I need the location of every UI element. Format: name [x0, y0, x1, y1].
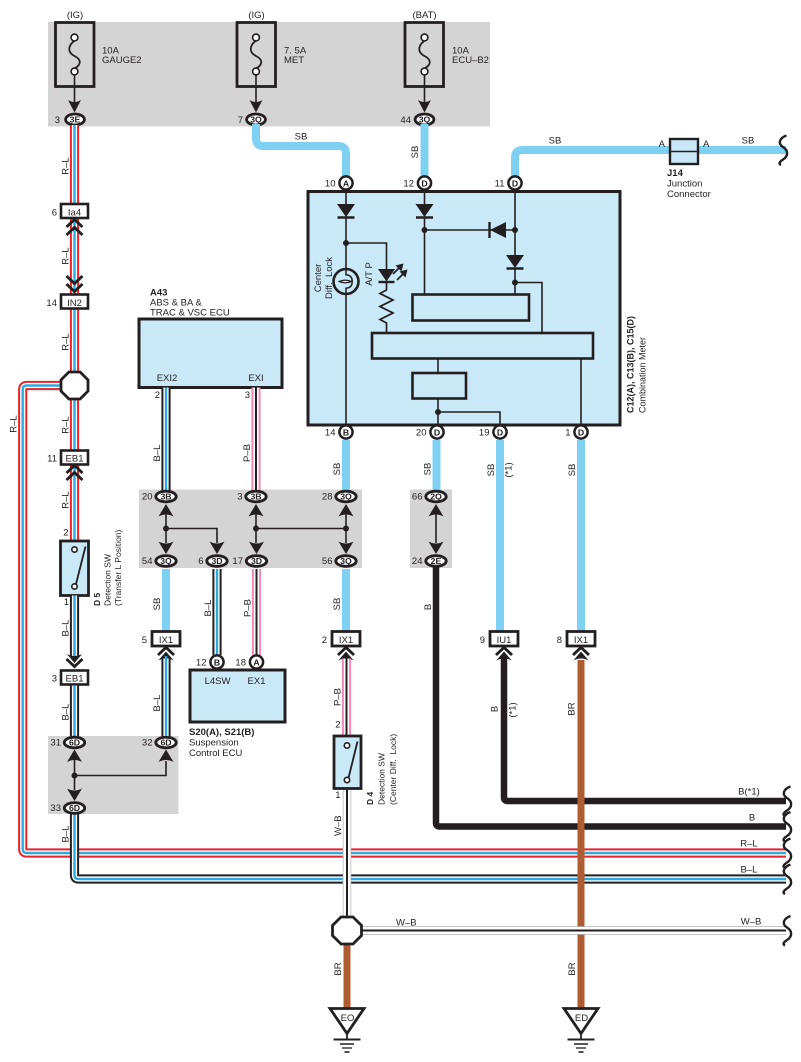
wire BR from 8-IX1 down to ground ED [578, 660, 585, 1008]
svg-text:EO: EO [341, 1013, 355, 1024]
meter pin 12 D [403, 176, 431, 189]
svg-text:ED: ED [575, 1013, 588, 1024]
ground EO [330, 1009, 364, 1053]
node junction below rect3 [435, 409, 441, 415]
svg-text:7: 7 [238, 115, 243, 126]
svg-text:B–L: B–L [152, 445, 163, 462]
connector 24 2E [412, 556, 446, 568]
svg-text:3Q: 3Q [419, 115, 431, 125]
junction block shading bottom left [48, 736, 179, 814]
chevron arrows below 2-IX1 [338, 648, 354, 661]
wire R-L IN2 to octagon junction [70, 309, 79, 375]
svg-text:TRAC & VSC ECU: TRAC & VSC ECU [150, 308, 230, 319]
arrow down into 17-3D [249, 542, 264, 555]
svg-text:(Center Diff. Lock): (Center Diff. Lock) [388, 734, 398, 805]
arrow down into 6-3D [210, 542, 225, 555]
svg-text:1: 1 [565, 427, 570, 438]
pin circle 12 B on L4SW [196, 655, 224, 668]
wire link 3-3B to 17-3D and 56-3Q [256, 515, 346, 544]
chevron arrows below Ia4 [67, 220, 83, 236]
svg-text:D: D [578, 427, 584, 437]
svg-text:6: 6 [52, 208, 57, 219]
connector 66 2Q [412, 491, 446, 503]
svg-text:3: 3 [52, 674, 57, 685]
arrow down into 33-6D [67, 789, 82, 802]
svg-text:B–L: B–L [741, 865, 758, 876]
svg-text:BR: BR [333, 962, 344, 975]
node junction 6D block [72, 773, 78, 779]
wire P-B 2-IX1 to D4 pin2 [342, 659, 351, 737]
arrow up into 20-3B [159, 504, 174, 517]
svg-text:B–L: B–L [203, 600, 214, 617]
svg-text:C12(A), C13(B), C15(D): C12(A), C13(B), C15(D) [626, 316, 636, 413]
arrow down into 54-3Q [159, 542, 174, 555]
connector 5 IX1 [142, 632, 180, 647]
wire diode D4 to rect1 [514, 268, 516, 295]
svg-text:B: B [343, 427, 349, 437]
svg-text:W–B: W–B [741, 917, 762, 928]
svg-text:IX1: IX1 [159, 635, 173, 646]
svg-text:(BAT): (BAT) [412, 10, 436, 21]
resistor inside meter [380, 282, 393, 333]
node junction on 12D line [422, 227, 428, 233]
curl break symbol B [784, 812, 792, 842]
wire SB from page edge through J14 to meter pin 11D [515, 150, 786, 178]
curl break symbol top right [780, 136, 788, 166]
svg-text:EXI: EXI [248, 373, 263, 384]
wire B-L EB1 pin3 to 31-6D [70, 686, 79, 737]
wire link 20-3B to 54-3Q and 6-3D [166, 515, 217, 544]
svg-text:D: D [434, 427, 440, 437]
arrow up into 31-6D [67, 750, 82, 763]
svg-text:8: 8 [557, 635, 562, 646]
svg-text:19: 19 [479, 427, 490, 438]
curl break symbol R-L [784, 839, 792, 869]
wire link 66-2Q to 24-2E [435, 515, 437, 544]
fuse MET 7.5A (IG) [237, 10, 307, 87]
wire B-L D5 pin1 to EB1 pin3 [70, 596, 79, 658]
fuse GAUGE2 10A (IG) [56, 10, 142, 87]
svg-text:11: 11 [47, 454, 57, 465]
svg-text:ECU–B2: ECU–B2 [452, 55, 489, 66]
wire P-B 17-3D to L4SW 18A [252, 569, 261, 655]
svg-text:MET: MET [284, 55, 304, 66]
wire B-L from A43 EXI2 to 20-3B [161, 388, 170, 491]
svg-text:SB: SB [295, 132, 308, 143]
svg-text:20: 20 [142, 492, 153, 503]
svg-text:B: B [490, 706, 501, 712]
svg-text:3B: 3B [250, 492, 261, 502]
svg-text:IX1: IX1 [339, 635, 353, 646]
svg-text:(IG): (IG) [67, 10, 83, 21]
svg-text:EX1: EX1 [248, 676, 266, 687]
chevron arrows below 5-IX1 [158, 648, 174, 663]
svg-text:(*1): (*1) [508, 702, 519, 717]
svg-text:1: 1 [64, 597, 69, 608]
block rect2 inside meter [372, 333, 593, 359]
connector EB1 pin 3 [52, 671, 88, 685]
svg-text:14: 14 [46, 298, 57, 309]
svg-text:(IG): (IG) [248, 10, 264, 21]
wire junction lines in 6D block [75, 760, 167, 790]
wire R-L EB1 to D5 pin2 [70, 465, 79, 542]
pin circle 18 A on L4SW [235, 655, 263, 668]
svg-text:2: 2 [63, 528, 68, 539]
svg-text:D 5: D 5 [92, 593, 102, 607]
svg-text:24: 24 [412, 556, 423, 567]
svg-text:3Q: 3Q [340, 492, 352, 502]
wire SB from meter 14B to 28-3Q [342, 440, 350, 490]
svg-text:S20(A), S21(B): S20(A), S21(B) [189, 727, 254, 738]
wire inside meter pin10A down [345, 192, 347, 205]
junction connector J14 [659, 139, 711, 200]
chevron arrows above IN2 [67, 276, 83, 292]
arrow up into 3-3B [249, 504, 264, 517]
wire SB from meter 19D to 9-IU1 [496, 440, 504, 632]
node junction on pin10A line [343, 240, 349, 246]
svg-text:56: 56 [322, 556, 333, 567]
meter pin 19 D [479, 425, 507, 438]
wire R-L 3E to Ia4 [70, 125, 79, 204]
svg-text:SB: SB [332, 598, 343, 611]
wire B-L long: from 33-6D down, right to page edge [75, 814, 787, 879]
svg-text:P–B: P–B [243, 599, 254, 617]
svg-text:B: B [749, 813, 755, 824]
wire SB 56-3Q to 2-IX1 [342, 569, 350, 632]
label Center Diff. Lock [313, 257, 335, 299]
svg-text:D: D [421, 178, 427, 188]
wire SB from meter 20D to 66-2Q [433, 440, 441, 490]
svg-text:L4SW: L4SW [205, 676, 231, 687]
connector 3Q pin 44 [400, 114, 433, 126]
svg-text:Junction: Junction [667, 179, 702, 190]
svg-text:R–L: R–L [61, 333, 72, 350]
svg-text:D 4: D 4 [365, 792, 375, 806]
svg-text:Control ECU: Control ECU [189, 748, 242, 759]
svg-text:3: 3 [245, 390, 250, 401]
svg-text:Ia4: Ia4 [68, 208, 81, 219]
connector 3Q pin 7 [238, 114, 266, 126]
curl break symbol W-B [784, 916, 792, 946]
svg-text:28: 28 [322, 492, 333, 503]
svg-text:2: 2 [322, 635, 327, 646]
svg-text:3E: 3E [70, 115, 81, 125]
ECU S20/S21 suspension control box L4SW [189, 670, 285, 759]
meter pin 1 D [565, 425, 587, 438]
meter pin 14 B [325, 425, 353, 438]
svg-text:BR: BR [567, 702, 578, 715]
node junction below 20-3B [163, 526, 169, 532]
wire diode D1 to lamp [345, 217, 347, 269]
svg-text:IN2: IN2 [67, 298, 82, 309]
svg-text:R–L: R–L [61, 416, 72, 433]
svg-text:3D: 3D [251, 556, 262, 566]
label D4 [365, 734, 398, 805]
svg-text:66: 66 [412, 492, 423, 503]
svg-text:Detection SW: Detection SW [103, 554, 113, 606]
arrow up into 32-6D [159, 750, 174, 763]
svg-text:B–L: B–L [61, 826, 72, 843]
wire branch 12D junction to 11D line [425, 229, 516, 231]
lamp Center Diff. Lock indicator [334, 269, 359, 294]
svg-text:R–L: R–L [740, 839, 757, 850]
svg-text:3: 3 [237, 492, 242, 503]
svg-text:R–L: R–L [9, 415, 20, 432]
octagon junction bottom [333, 917, 362, 944]
svg-text:W–B: W–B [333, 815, 344, 836]
svg-text:EB1: EB1 [66, 454, 84, 465]
svg-text:2: 2 [155, 390, 160, 401]
svg-text:A: A [253, 657, 260, 667]
svg-text:Detection SW: Detection SW [377, 753, 387, 805]
svg-text:12: 12 [403, 178, 414, 189]
svg-text:44: 44 [400, 115, 411, 126]
svg-text:3Q: 3Q [340, 556, 352, 566]
wire branch junction to pin 19D [438, 412, 500, 425]
block rect1 inside meter [413, 295, 530, 321]
connector 2 IX1 [322, 632, 360, 647]
connector 6 3D [198, 556, 227, 568]
svg-text:(*1): (*1) [504, 462, 515, 477]
wire R-L long: from octagon left, down left edge, right to page edge [23, 386, 786, 854]
wire SB 54-3Q to 5-IX1 [162, 569, 170, 632]
wire B-L 6-3D to L4SW 12B [212, 569, 221, 655]
svg-text:D: D [497, 427, 503, 437]
svg-text:EXI2: EXI2 [157, 373, 178, 384]
svg-text:W–B: W–B [396, 918, 417, 929]
svg-text:32: 32 [142, 738, 153, 749]
junction block shading top [48, 22, 490, 127]
wire SB from 3Q pin7 to meter pin 10A [256, 124, 346, 178]
connector 56 3Q [322, 556, 356, 568]
svg-text:D: D [512, 178, 518, 188]
svg-text:12: 12 [196, 657, 207, 668]
svg-text:6D: 6D [69, 738, 80, 748]
svg-text:Combination Meter: Combination Meter [638, 337, 648, 413]
svg-text:A: A [703, 139, 710, 150]
svg-text:33: 33 [50, 803, 61, 814]
svg-text:20: 20 [416, 427, 427, 438]
wire BR from octagon to ground EO [344, 943, 351, 1008]
wire inside meter pin11D down [514, 192, 516, 256]
svg-text:2Q: 2Q [430, 492, 442, 502]
svg-text:1: 1 [335, 790, 340, 801]
svg-text:P–B: P–B [333, 688, 344, 706]
svg-text:R–L: R–L [61, 247, 72, 264]
junction block shading middle right [410, 490, 452, 569]
connector 54 3Q [142, 556, 176, 568]
svg-text:SB: SB [410, 146, 421, 159]
svg-text:BR: BR [567, 962, 578, 975]
octagon junction left [61, 372, 88, 399]
chevron arrows above EB1 pin3 [67, 650, 83, 667]
svg-text:Suspension: Suspension [189, 738, 239, 749]
meter pin 10 A [325, 176, 353, 189]
connector 28 3Q [322, 491, 356, 503]
svg-text:5: 5 [142, 635, 147, 646]
wire rect2 to pin 1D [580, 359, 582, 426]
combination meter box C12/C13/C15 [308, 192, 620, 426]
svg-text:B–L: B–L [61, 620, 72, 637]
wire R-L octagon to EB1 pin11 [70, 397, 79, 451]
curl break symbol B(*1) [784, 787, 792, 817]
connector Ia4 pin 6 [52, 204, 88, 219]
connector 3E pin 3 [55, 114, 85, 126]
svg-text:10: 10 [325, 178, 336, 189]
svg-text:GAUGE2: GAUGE2 [102, 55, 142, 66]
svg-text:2E: 2E [431, 556, 442, 566]
svg-text:B(*1): B(*1) [738, 787, 760, 798]
svg-text:31: 31 [50, 738, 61, 749]
svg-text:Diff. Lock: Diff. Lock [324, 257, 335, 299]
diode D2 under pin 12D [416, 204, 434, 218]
svg-text:B–L: B–L [152, 695, 163, 712]
svg-text:(Transfer L Position): (Transfer L Position) [113, 529, 123, 606]
svg-text:P–B: P–B [242, 444, 253, 462]
wire SB from 3Q pin44 to meter pin 12D [421, 124, 429, 178]
label D5 [92, 529, 123, 606]
diode D1 under pin 10A [337, 204, 355, 218]
svg-text:3D: 3D [211, 556, 222, 566]
svg-text:SB: SB [332, 463, 343, 476]
svg-text:SB: SB [486, 464, 497, 477]
LED A/T P indicator [378, 264, 408, 283]
svg-text:SB: SB [549, 136, 562, 147]
wire rect3 to pin 20D [437, 399, 439, 426]
svg-text:EB1: EB1 [66, 674, 84, 685]
wire R-L Ia4 to IN2 [70, 218, 79, 295]
wire SB from meter 1D to 8-IX1 [577, 440, 585, 632]
connector 8 IX1 [557, 632, 595, 647]
svg-text:17: 17 [232, 556, 243, 567]
connector EB1 pin 11 [47, 451, 88, 465]
svg-text:A: A [343, 178, 350, 188]
svg-text:Connector: Connector [667, 189, 711, 200]
svg-text:B: B [423, 604, 434, 610]
meter label C12(A), C13(B), C15(D) Combination Meter [626, 316, 648, 413]
ground ED [564, 1009, 598, 1053]
node junction below 28-3Q [343, 526, 349, 532]
svg-text:SB: SB [152, 598, 163, 611]
svg-text:IU1: IU1 [497, 635, 512, 646]
wire W-B horizontal from octagon to page edge [360, 926, 786, 935]
svg-text:9: 9 [480, 635, 485, 646]
svg-text:11: 11 [495, 178, 505, 189]
meter pin 20 D [416, 425, 444, 438]
connector 17 3D [232, 556, 266, 568]
connector 32 6D [142, 737, 176, 749]
arrow down into 56-3Q [339, 542, 354, 555]
diode D4 on 11D line [506, 255, 524, 269]
svg-text:A/T P: A/T P [364, 262, 375, 286]
node junction below 3-3B [253, 526, 259, 532]
chevron arrows below 8-IX1 [573, 648, 589, 661]
svg-text:2: 2 [335, 720, 340, 731]
meter pin 11 D [495, 176, 522, 189]
svg-text:J14: J14 [667, 168, 684, 179]
switch D4 detection SW center diff lock [334, 736, 361, 801]
wire rect2 to rect3 [437, 359, 439, 374]
svg-text:3B: 3B [160, 492, 171, 502]
svg-text:14: 14 [325, 427, 336, 438]
chevron arrows below 9-IU1 [496, 648, 512, 661]
arrow up into 66-2Q [429, 504, 444, 517]
wire lamp to pin 14B [345, 294, 347, 425]
svg-text:6D: 6D [69, 803, 80, 813]
svg-text:IX1: IX1 [574, 635, 588, 646]
connector 33 6D [50, 803, 84, 815]
svg-text:3Q: 3Q [160, 556, 172, 566]
wire B-L 5-IX1 to 32-6D [161, 659, 170, 737]
wire B(*1) from IU1 down and right to edge [504, 658, 786, 801]
wire inside meter pin12D down [424, 192, 426, 205]
connector 20 3B [142, 491, 176, 503]
svg-text:SB: SB [423, 463, 434, 476]
block rect3 inside meter [413, 373, 467, 399]
svg-text:A: A [659, 139, 666, 150]
arrow down into 24-2E [429, 542, 444, 555]
svg-text:18: 18 [235, 657, 246, 668]
wire W-B vertical from D4 pin1 to octagon [343, 789, 352, 918]
svg-text:Center: Center [313, 264, 324, 293]
svg-text:B–L: B–L [61, 704, 72, 721]
svg-text:SB: SB [742, 136, 755, 147]
ECU A43 ABS & BA & TRAC & VSC [139, 288, 282, 402]
svg-text:SB: SB [567, 464, 578, 477]
svg-text:54: 54 [142, 556, 153, 567]
svg-text:3: 3 [55, 115, 60, 126]
connector IN2 pin 14 [46, 295, 88, 310]
chevron arrows below EB1 pin11 [67, 466, 83, 481]
svg-text:R–L: R–L [61, 491, 72, 508]
diode D3 pointing left on branch [490, 222, 507, 238]
wire fuse MET to 3Q with arrow [250, 75, 263, 113]
wire diode D2 down to register rect1 [424, 217, 426, 295]
wire P-B from A43 EXI to 3-3B [251, 388, 260, 491]
svg-text:3Q: 3Q [250, 115, 262, 125]
curl break symbol B-L [784, 865, 792, 895]
wire fuse ECU-B2 to 3Q with arrow [418, 75, 431, 113]
svg-text:R–L: R–L [61, 157, 72, 174]
junction block shading middle left [139, 490, 362, 569]
svg-text:6: 6 [198, 556, 203, 567]
fuse ECU-B2 10A (BAT) [405, 10, 489, 87]
wire branch to big block rect2 [515, 283, 542, 334]
connector 3 3B [237, 491, 266, 503]
wire B from 24-2E down and right to edge [436, 566, 786, 827]
wire branch junction to LED [346, 243, 387, 269]
svg-text:B: B [214, 657, 220, 667]
arrow up into 28-3Q [339, 504, 354, 517]
wire fuse GAUGE2 to 3E with arrow [68, 75, 81, 113]
svg-text:6D: 6D [160, 738, 171, 748]
connector 9 IU1 [480, 632, 518, 647]
node junction on 11D line [512, 227, 518, 233]
connector 31 6D [50, 737, 84, 749]
switch D5 detection SW transfer L position [61, 528, 89, 609]
node junction below diode D4 [512, 280, 518, 286]
